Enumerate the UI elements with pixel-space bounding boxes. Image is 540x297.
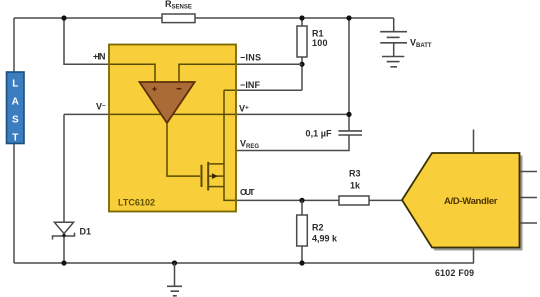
wire ADC output 1	[520, 171, 538, 173]
op-amp triangle	[140, 82, 195, 123]
wire -INS	[236, 63, 302, 65]
wire V- branch to D1	[63, 114, 65, 222]
ADC A/D-Wandler	[402, 153, 520, 248]
diode D1	[54, 222, 73, 233]
svg-text:A: A	[12, 97, 19, 108]
node junction ground center	[172, 260, 177, 265]
wire top rail	[14, 17, 394, 19]
wire R3 to ADC	[369, 199, 403, 201]
wire ADC output 2	[520, 197, 538, 199]
load box LAST	[7, 72, 25, 144]
wire ADC supply	[473, 130, 475, 154]
node junction V+ top	[346, 15, 351, 20]
wire R1 vertical	[301, 18, 303, 90]
node junction R1 top	[299, 15, 304, 20]
svg-text:−INS: −INS	[240, 53, 261, 63]
wire bottom rail	[14, 262, 474, 264]
resistor R3	[339, 196, 369, 205]
svg-text:R3: R3	[349, 169, 361, 179]
svg-text:D1: D1	[80, 227, 92, 237]
resistor R1	[297, 26, 307, 57]
svg-text:1k: 1k	[350, 181, 361, 191]
wire inside +IN	[110, 64, 155, 82]
node junction V+ cap	[346, 112, 351, 117]
node junction R2 top	[299, 198, 304, 203]
wire ADC ground	[473, 248, 475, 264]
node junction D1 bottom	[61, 260, 66, 265]
svg-text:T: T	[12, 133, 18, 144]
wire V- horizontal	[64, 113, 110, 115]
svg-text:100: 100	[312, 38, 328, 48]
resistor RSENSE	[162, 14, 195, 23]
wire left rail upper	[13, 18, 15, 72]
wire op-amp output to gate	[167, 123, 200, 176]
battery VBATT	[393, 18, 395, 32]
wire D1 cathode to rail	[63, 236, 65, 263]
wire inside -INS	[179, 64, 235, 82]
wire V+ horizontal	[236, 113, 349, 115]
op-amp IC U1 LTC6102 body	[109, 45, 236, 212]
svg-text:+IN: +IN	[93, 52, 106, 62]
wire ADC output 3	[520, 222, 538, 224]
ground center	[174, 263, 176, 286]
svg-text:OUT: OUT	[240, 187, 255, 197]
svg-text:S: S	[12, 115, 19, 126]
wire left rail lower	[13, 144, 15, 264]
transistor Q1 MOSFET	[201, 165, 203, 187]
capacitor C1 0.1uF	[338, 131, 362, 135]
wire -INF	[236, 89, 302, 91]
wire inside V line	[110, 113, 235, 115]
wire inside -INF vertical	[224, 90, 235, 200]
node junction top-left	[61, 15, 66, 20]
ADC shadow	[405, 156, 523, 251]
svg-text:−INF: −INF	[240, 80, 261, 90]
svg-text:0,1 µF: 0,1 µF	[306, 129, 333, 139]
svg-text:6102 F09: 6102 F09	[435, 268, 474, 278]
svg-text:LTC6102: LTC6102	[118, 198, 155, 208]
svg-text:R1: R1	[312, 29, 324, 39]
node junction R2 bottom	[299, 260, 304, 265]
ground under battery	[382, 56, 404, 58]
svg-text:4,99 k: 4,99 k	[312, 234, 338, 244]
wire +IN branch	[64, 18, 110, 64]
resistor R2	[301, 200, 303, 263]
svg-text:R2: R2	[312, 223, 324, 233]
svg-text:L: L	[12, 79, 18, 90]
node junction R1 bottom	[299, 62, 304, 67]
wire OUT to R3	[236, 199, 339, 201]
wire V+ rail vertical	[348, 18, 350, 131]
svg-text:A/D-Wandler: A/D-Wandler	[444, 196, 498, 207]
